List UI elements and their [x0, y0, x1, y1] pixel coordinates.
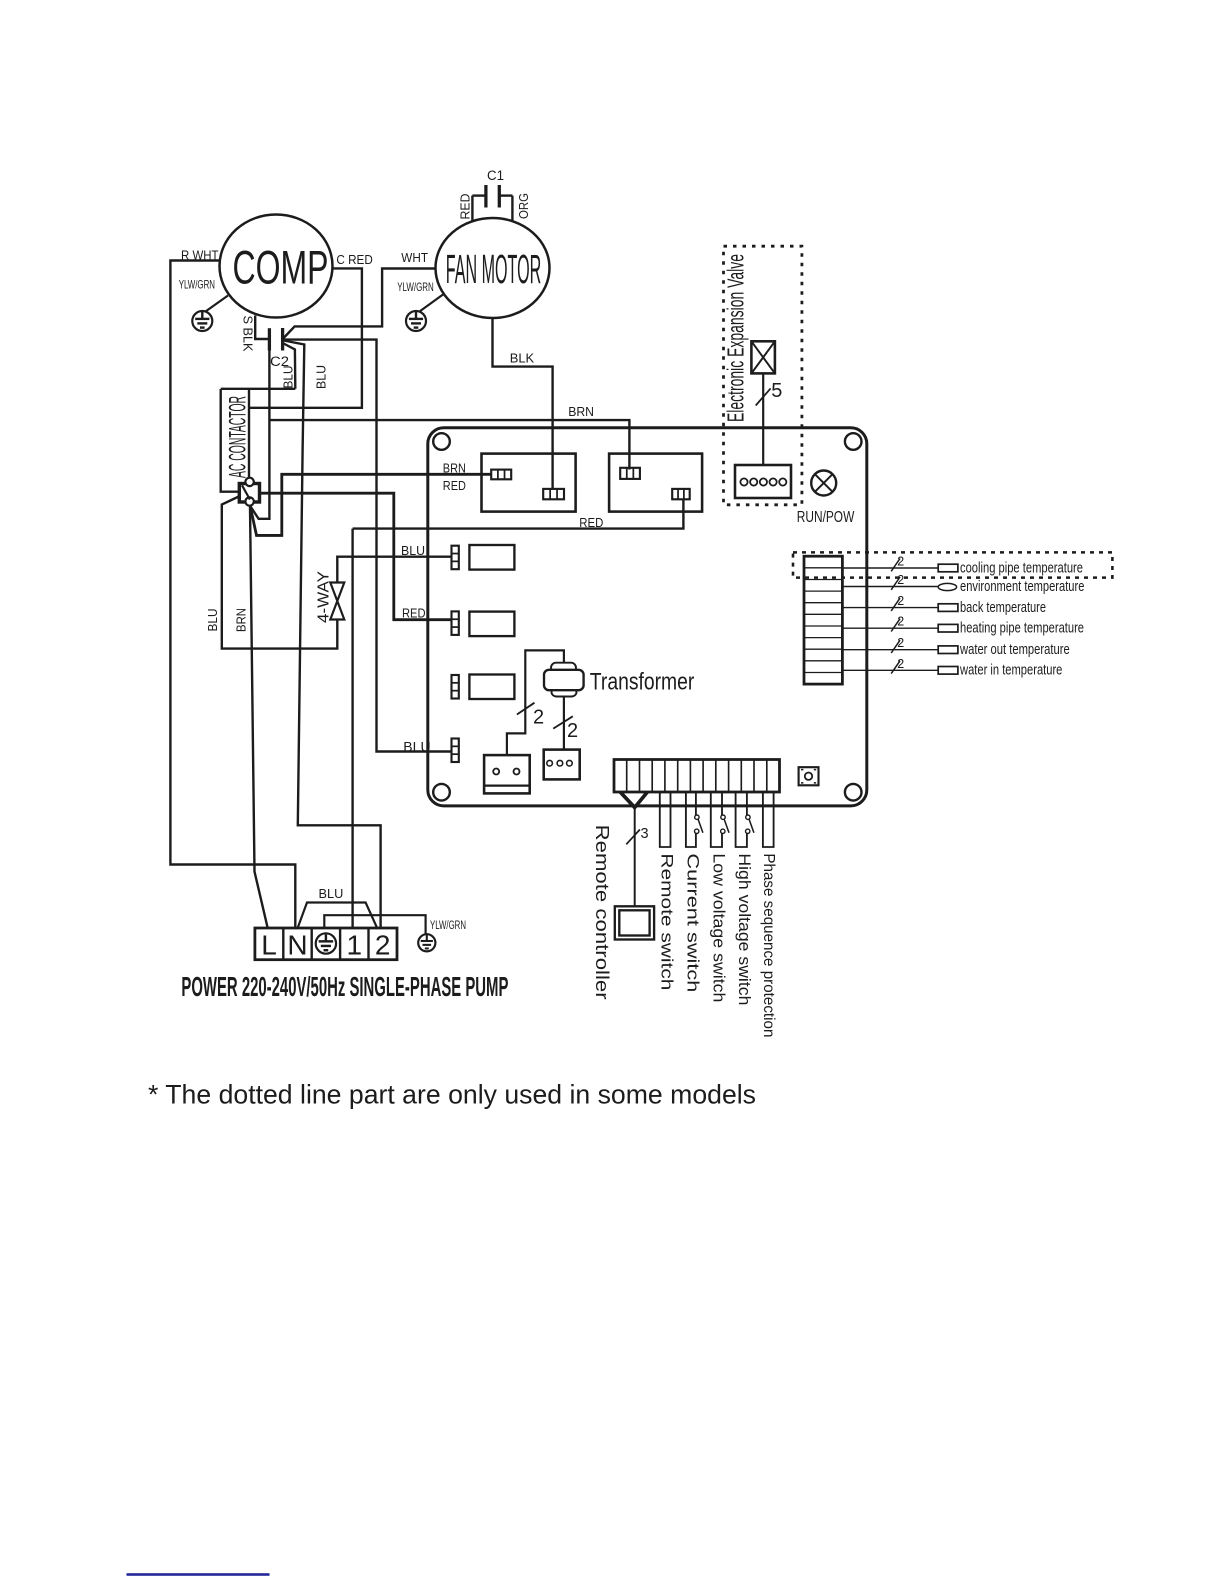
svg-text:BLU: BLU — [314, 365, 329, 389]
svg-text:2: 2 — [897, 657, 904, 671]
svg-text:1: 1 — [347, 930, 363, 961]
svg-text:BLU: BLU — [205, 609, 220, 632]
svg-text:heating pipe temperature: heating pipe temperature — [960, 620, 1084, 637]
svg-text:FAN MOTOR: FAN MOTOR — [446, 246, 542, 292]
svg-text:BRN: BRN — [233, 608, 248, 632]
svg-text:N: N — [287, 930, 307, 961]
svg-text:Electronic Expansion Valve: Electronic Expansion Valve — [723, 254, 749, 422]
svg-text:RUN/POW: RUN/POW — [797, 509, 855, 526]
svg-text:C1: C1 — [487, 168, 504, 183]
svg-text:RED: RED — [458, 194, 473, 220]
svg-text:WHT: WHT — [401, 250, 428, 265]
svg-text:2: 2 — [897, 615, 904, 629]
svg-text:5: 5 — [771, 380, 782, 402]
svg-text:water in temperature: water in temperature — [959, 662, 1062, 679]
svg-text:water out temperature: water out temperature — [959, 641, 1069, 658]
svg-text:ORG: ORG — [516, 193, 531, 219]
svg-text:YLW/GRN: YLW/GRN — [430, 920, 466, 932]
svg-text:2: 2 — [533, 707, 544, 729]
svg-text:2: 2 — [897, 555, 904, 569]
svg-text:4-WAY: 4-WAY — [316, 571, 333, 623]
svg-text:back temperature: back temperature — [960, 599, 1046, 616]
svg-text:* The dotted line part are onl: * The dotted line part are only used in … — [148, 1080, 756, 1110]
svg-text:Remote switch: Remote switch — [658, 853, 677, 990]
svg-text:Low voltage switch: Low voltage switch — [710, 853, 729, 1002]
svg-text:YLW/GRN: YLW/GRN — [397, 280, 434, 294]
svg-text:COMP: COMP — [233, 241, 329, 294]
svg-text:L: L — [261, 930, 277, 961]
svg-text:environment temperature: environment temperature — [960, 578, 1084, 595]
svg-text:BRN: BRN — [568, 404, 594, 419]
svg-text:C RED: C RED — [336, 252, 372, 267]
svg-text:2: 2 — [567, 720, 578, 742]
svg-text:BLK: BLK — [510, 350, 535, 365]
svg-text:2: 2 — [375, 930, 391, 961]
svg-text:Transformer: Transformer — [590, 668, 695, 695]
svg-text:BRN: BRN — [443, 461, 466, 476]
svg-text:cooling pipe temperature: cooling pipe temperature — [960, 559, 1083, 576]
svg-text:RED: RED — [402, 605, 426, 620]
svg-text:YLW/GRN: YLW/GRN — [179, 278, 215, 292]
svg-text:Remote controller: Remote controller — [592, 825, 612, 1000]
svg-text:BLU: BLU — [319, 886, 344, 901]
svg-text:AC CONTACTOR: AC CONTACTOR — [224, 396, 251, 478]
svg-text:3: 3 — [640, 826, 648, 842]
svg-text:High voltage switch: High voltage switch — [735, 853, 754, 1005]
svg-text:2: 2 — [897, 636, 904, 650]
svg-text:POWER 220-240V/50Hz SINGLE-PHA: POWER 220-240V/50Hz SINGLE-PHASE PUMP — [181, 971, 508, 1002]
svg-text:RED: RED — [579, 515, 603, 530]
svg-text:S BLK: S BLK — [241, 316, 256, 352]
svg-text:RED: RED — [443, 478, 466, 493]
svg-text:2: 2 — [897, 573, 904, 587]
svg-text:Current switch: Current switch — [684, 853, 703, 992]
svg-text:Phase sequence protection: Phase sequence protection — [760, 853, 777, 1037]
svg-text:2: 2 — [897, 594, 904, 608]
svg-text:BLU: BLU — [281, 366, 296, 389]
svg-text:BLU: BLU — [401, 543, 425, 558]
